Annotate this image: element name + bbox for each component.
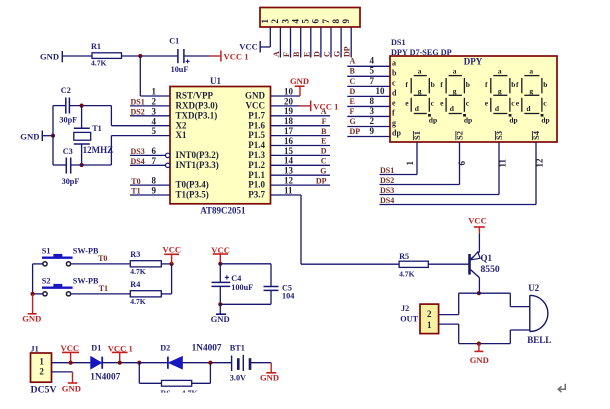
wire D1 to VCC1 (102, 362, 139, 364)
wire VCC1 to D2 (139, 362, 167, 364)
wire rail to C2 (53, 105, 66, 107)
ground symbol below switches (32, 294, 34, 314)
ground symbol at U1 pin 10 (295, 85, 305, 87)
svg-text:GND: GND (245, 91, 266, 101)
wire J2 pin 1 (439, 323, 459, 325)
svg-text:J2: J2 (401, 304, 409, 313)
svg-text:c: c (392, 78, 396, 87)
svg-text:1: 1 (152, 87, 157, 97)
svg-text:DS4: DS4 (380, 196, 394, 205)
svg-text:6: 6 (311, 19, 321, 24)
svg-text:T1: T1 (131, 187, 140, 196)
resistor R1 (92, 53, 122, 59)
wire U1 pin 3 with net label DS2 (130, 115, 170, 117)
wire R6 to right branch (192, 382, 211, 384)
svg-text:2: 2 (152, 97, 157, 107)
wire U1 pin 9 with net label T1 (130, 194, 170, 196)
svg-text:U2: U2 (528, 283, 539, 293)
svg-text:TXD(P3.1): TXD(P3.1) (176, 110, 218, 120)
crystal T1 12MHZ (74, 127, 90, 129)
svg-text:S2: S2 (42, 276, 51, 285)
svg-text:DS2: DS2 (131, 108, 145, 117)
node GND/rail junction (51, 134, 55, 138)
svg-text:GND: GND (470, 355, 489, 365)
svg-text:d: d (392, 88, 397, 97)
svg-text:2: 2 (270, 19, 280, 24)
svg-text:5: 5 (301, 19, 311, 24)
svg-text:GND: GND (22, 314, 41, 324)
seven-segment digit glyphs (414, 75, 427, 77)
bell U2 (530, 295, 548, 331)
svg-text:a: a (392, 58, 396, 67)
node VCC1 junction (118, 361, 122, 365)
wire U1 pin 6 INT0 with bubble and net label DS3 (166, 153, 170, 157)
svg-text:7: 7 (321, 19, 331, 24)
wire U1 pin 10 to ground (271, 95, 301, 97)
wire GND to R1 (62, 55, 92, 57)
wire branch down to R6 (138, 363, 140, 384)
svg-text:b: b (543, 80, 547, 89)
svg-text:a: a (529, 67, 533, 76)
wire R1 to C1 with junction (122, 55, 178, 57)
svg-text:GND: GND (290, 76, 309, 86)
svg-text:6: 6 (152, 146, 157, 156)
display bottom pin wires with rotated numbers (416, 142, 418, 175)
node VCC/C4 junction (218, 262, 222, 266)
svg-text:VCC: VCC (163, 245, 182, 255)
svg-text:B: B (350, 67, 356, 76)
svg-text:a: a (453, 67, 457, 76)
svg-text:1N4007: 1N4007 (90, 373, 120, 383)
svg-text:D1: D1 (91, 343, 101, 352)
diode D2 1N4007 (reversed) (167, 357, 169, 369)
svg-text:16: 16 (284, 136, 294, 146)
svg-text:19: 19 (284, 106, 294, 116)
power port VCC1 at U1 pin 20 (310, 101, 312, 112)
svg-text:D: D (312, 51, 321, 57)
node C4 bottom junction (218, 302, 222, 306)
resistor R3 (130, 261, 161, 267)
capacitor C2 30pF (65, 98, 67, 114)
capacitor C1 10uF (177, 49, 179, 63)
power port VCC1 (after C1) (220, 51, 222, 62)
node R6 branch left junction (137, 361, 141, 365)
svg-text:b: b (466, 80, 470, 89)
svg-text:1: 1 (405, 161, 415, 166)
svg-text:E: E (321, 137, 326, 146)
wire battery to GND (251, 362, 271, 364)
wire to U1 pin 4 X2 (110, 106, 112, 126)
svg-text:DP: DP (350, 127, 361, 136)
svg-text:P3.7: P3.7 (248, 190, 265, 200)
svg-text:AT89C2051: AT89C2051 (200, 206, 246, 216)
svg-text:12: 12 (284, 176, 294, 186)
svg-text:VCC 1: VCC 1 (224, 52, 249, 62)
wire crystal top stub (81, 106, 83, 129)
wire R5 to Q1 base (428, 263, 468, 265)
svg-text:P1.3: P1.3 (248, 150, 265, 160)
svg-text:1N4007: 1N4007 (192, 344, 222, 354)
svg-text:B: B (321, 127, 327, 136)
svg-text:F: F (322, 117, 327, 126)
svg-text:S1: S1 (42, 246, 51, 255)
node junction R1/C1/RST (138, 54, 142, 58)
svg-text:8: 8 (152, 176, 157, 186)
port GND (below C4) (219, 304, 221, 314)
svg-text:E: E (350, 97, 355, 106)
svg-text:e: e (392, 98, 396, 107)
svg-text:11: 11 (284, 185, 293, 195)
svg-text:BELL: BELL (527, 335, 551, 345)
svg-text:RST/VPP: RST/VPP (176, 91, 214, 101)
svg-text:10: 10 (376, 86, 386, 96)
svg-text:g: g (453, 86, 457, 95)
svg-text:b: b (392, 68, 397, 77)
wire C4 bottom rail (220, 303, 271, 305)
svg-text:P1.1: P1.1 (248, 170, 265, 180)
wire U1 pin 7 INT1 with bubble and net label DS4 (166, 163, 170, 167)
svg-text:f: f (392, 108, 395, 117)
svg-text:15: 15 (284, 146, 294, 156)
diode D1 1N4007 (91, 357, 102, 369)
svg-text:P1.7: P1.7 (248, 110, 265, 120)
svg-text:F: F (282, 52, 291, 57)
svg-text:T1: T1 (99, 284, 108, 293)
svg-text:12: 12 (534, 158, 544, 168)
svg-text:VCC: VCC (239, 42, 258, 52)
svg-text:F: F (350, 107, 355, 116)
svg-text:T0: T0 (98, 254, 107, 263)
svg-text:T0(P3.4): T0(P3.4) (176, 180, 209, 190)
svg-text:C: C (321, 157, 327, 166)
svg-text:VCC: VCC (246, 101, 266, 111)
svg-text:dp: dp (509, 115, 517, 124)
wire rail to C3 (53, 164, 66, 166)
svg-text:2: 2 (39, 366, 44, 376)
wires U1 pins 19-12 with net labels A F B E D C G DP (271, 115, 331, 117)
svg-text:A: A (321, 107, 327, 116)
node D2/R6 right junction (208, 361, 212, 365)
svg-text:17: 17 (284, 126, 294, 136)
svg-text:RXD(P3.0): RXD(P3.0) (176, 101, 218, 111)
wire junction down to U1 pin 1 (139, 56, 141, 96)
svg-text:4: 4 (152, 116, 157, 126)
svg-text:G: G (333, 51, 342, 57)
svg-text:T1(P3.5): T1(P3.5) (176, 190, 209, 200)
svg-text:T1: T1 (92, 124, 102, 133)
wire crystal bottom stub (81, 144, 83, 165)
svg-text:4.7K: 4.7K (399, 269, 414, 278)
resistor R6 (162, 380, 192, 386)
svg-text:20: 20 (284, 96, 294, 106)
svg-text:9: 9 (341, 19, 351, 24)
svg-text:D: D (350, 87, 356, 96)
wire left rail S1 to S2 (32, 264, 34, 294)
svg-text:P1.5: P1.5 (248, 130, 265, 140)
svg-text:3: 3 (280, 19, 290, 24)
wire C5 right rail (270, 264, 272, 287)
node left rail/GND junction (30, 292, 34, 296)
svg-text:DP: DP (343, 46, 352, 57)
svg-text:DP: DP (316, 176, 327, 185)
node crystal top junction (80, 104, 84, 108)
wire bell bottom stub (509, 330, 511, 344)
display DPY body (390, 56, 557, 142)
node bottom GND junction (477, 342, 481, 346)
svg-text:DC5V: DC5V (31, 384, 57, 395)
svg-text:dp: dp (392, 129, 401, 138)
svg-text:2: 2 (370, 116, 375, 126)
port VCC (top connector) (259, 41, 261, 53)
wire to U1 pin 5 X1 (110, 136, 112, 165)
svg-text:30pF: 30pF (62, 177, 80, 186)
svg-text:8550: 8550 (481, 264, 500, 275)
wire C3 to X1 node (71, 164, 112, 166)
svg-text:9: 9 (152, 186, 157, 196)
wire C2 to X2 node (69, 105, 111, 107)
svg-text:C3: C3 (63, 147, 73, 156)
svg-text:dp: dp (464, 115, 472, 124)
svg-text:B: B (292, 51, 301, 57)
svg-text:GND: GND (40, 52, 59, 62)
node crystal bottom junction (80, 163, 84, 167)
svg-text:13: 13 (284, 166, 294, 176)
svg-text:Q1: Q1 (481, 253, 493, 263)
svg-text:P1.2: P1.2 (248, 160, 265, 170)
svg-text:2: 2 (427, 309, 432, 319)
wire J1 pin 1 (52, 362, 91, 364)
svg-text:P1.0: P1.0 (248, 180, 265, 190)
node Q1 collector junction (477, 291, 481, 295)
svg-text:30pF: 30pF (59, 116, 77, 125)
svg-text:DS3: DS3 (131, 147, 145, 156)
svg-text:A: A (350, 57, 356, 66)
wire pin1 to VCC port (269, 27, 271, 47)
capacitor C4 100uF (212, 281, 231, 283)
svg-text:DS4: DS4 (131, 157, 145, 166)
svg-text:VCC: VCC (468, 215, 487, 225)
svg-text:9: 9 (370, 126, 375, 136)
value label R6 4.7K (clipped) (161, 389, 199, 398)
svg-text:X2: X2 (176, 120, 187, 130)
svg-text:4.7K: 4.7K (130, 267, 145, 276)
svg-text:1: 1 (427, 320, 432, 330)
wire S2 to R4 with net label T1 (71, 293, 131, 295)
ground symbol below bell row (478, 344, 480, 352)
svg-text:G: G (350, 117, 356, 126)
wire GND port to rail (42, 135, 53, 137)
svg-text:1: 1 (39, 357, 44, 367)
svg-text:g: g (418, 86, 422, 95)
svg-text:DS3: DS3 (380, 186, 394, 195)
svg-text:R1: R1 (91, 42, 101, 51)
svg-text:dp: dp (541, 115, 549, 124)
wire to J2 pin 2 (458, 293, 460, 314)
svg-text:GND: GND (260, 372, 279, 382)
svg-text:10: 10 (284, 86, 294, 96)
wire left rail (52, 106, 54, 165)
svg-text:C: C (350, 77, 356, 86)
svg-text:R4: R4 (130, 280, 140, 289)
svg-text:3: 3 (152, 106, 157, 116)
svg-text:C1: C1 (169, 37, 179, 46)
svg-text:X1: X1 (176, 130, 187, 140)
wire C4 top rail (220, 263, 271, 265)
svg-text:3: 3 (370, 106, 375, 116)
svg-text:D2: D2 (160, 344, 170, 353)
svg-text:SW-PB: SW-PB (73, 246, 99, 255)
svg-text:14: 14 (284, 156, 294, 166)
svg-text:C: C (323, 51, 332, 57)
svg-text:g: g (392, 118, 396, 127)
svg-text:DS1: DS1 (380, 166, 394, 175)
svg-text:R5: R5 (399, 252, 409, 261)
svg-text:SW-PB: SW-PB (73, 276, 99, 285)
connector JP1 (9-pin header) (260, 8, 360, 28)
svg-text:GND: GND (211, 314, 230, 324)
svg-text:VCC: VCC (61, 343, 80, 353)
svg-text:DS1: DS1 (391, 38, 406, 47)
svg-text:GND: GND (20, 131, 39, 141)
wire VCC rail down to R4 (171, 264, 173, 294)
ground symbol after battery (270, 363, 272, 373)
connector J2 OUT (420, 304, 439, 334)
svg-text:8: 8 (370, 96, 375, 106)
svg-text:g: g (529, 86, 533, 95)
wire U1 pin 2 with net label DS1 (130, 105, 170, 107)
svg-text:a: a (418, 67, 422, 76)
svg-text:P1.4: P1.4 (248, 140, 265, 150)
svg-text:DS1: DS1 (131, 98, 145, 107)
wire R3 to VCC rail (161, 263, 171, 265)
svg-text:5: 5 (152, 126, 157, 136)
svg-text:8: 8 (331, 19, 341, 24)
svg-text:U1: U1 (210, 76, 221, 86)
svg-text:104: 104 (282, 292, 294, 301)
capacitor C3 30pF (65, 158, 67, 174)
resistor R4 (130, 291, 161, 297)
svg-text:4: 4 (291, 19, 301, 24)
svg-text:OUT: OUT (400, 315, 418, 324)
wire U1 pin 8 with net label T0 (130, 184, 170, 186)
svg-text:12MHZ: 12MHZ (83, 145, 114, 155)
svg-text:DPY: DPY (464, 57, 483, 67)
wire bottom row to bell (459, 343, 511, 345)
svg-text:7: 7 (370, 76, 375, 86)
svg-text:P1.6: P1.6 (248, 120, 265, 130)
svg-text:11: 11 (497, 158, 507, 167)
resistor R5 (399, 261, 428, 267)
svg-text:10uF: 10uF (171, 65, 189, 74)
svg-text:b: b (511, 80, 515, 89)
svg-text:b: b (431, 80, 435, 89)
svg-text:5: 5 (370, 66, 375, 76)
wire rail to S1 (33, 263, 43, 265)
wire collector row (459, 292, 511, 294)
svg-text:BT1: BT1 (230, 344, 245, 353)
svg-text:6: 6 (457, 161, 467, 166)
svg-text:R3: R3 (130, 250, 140, 259)
svg-text:C2: C2 (61, 86, 71, 95)
svg-text:A: A (272, 51, 281, 57)
wire U1 pin 20 to VCC1 (271, 105, 300, 107)
node R3/VCC rail junction (170, 262, 174, 266)
svg-text:INT1(P3.3): INT1(P3.3) (176, 160, 219, 170)
ground symbol at J1 pin 2 (52, 371, 73, 373)
wire R4 to VCC rail (161, 293, 171, 295)
wire bell top stub (509, 293, 511, 306)
svg-text:GND: GND (62, 384, 81, 394)
transistor Q1 8550 (468, 254, 471, 275)
svg-text:3.0V: 3.0V (230, 373, 246, 382)
svg-text:D: D (321, 147, 327, 156)
wire U1 pin 11 P3.7 down to R5 (271, 194, 302, 196)
wire C1 to VCC1 port (184, 55, 209, 57)
svg-text:4.7K: 4.7K (130, 297, 145, 306)
op-amp U1 microcontroller AT89C2051 body (170, 87, 271, 204)
return mark (gray) (558, 384, 565, 392)
wires connector pins 2-9 with net labels A F B E D C G DP (279, 27, 281, 57)
svg-text:1: 1 (260, 19, 270, 24)
svg-text:7: 7 (152, 156, 157, 166)
svg-text:18: 18 (284, 116, 294, 126)
svg-text:dp: dp (429, 115, 437, 124)
svg-text:4: 4 (370, 56, 375, 66)
display left pin wires with net labels and numbers (347, 65, 390, 67)
node VCC junction (69, 361, 73, 365)
svg-text:INT0(P3.2): INT0(P3.2) (176, 150, 219, 160)
wire rail to S2 (33, 293, 43, 295)
svg-text:a: a (498, 67, 502, 76)
svg-text:4.7K: 4.7K (91, 58, 106, 67)
wire C4 bottom (219, 286, 221, 304)
wire S1 to R3 with net label T0 (71, 263, 131, 265)
svg-text:DS2: DS2 (380, 176, 394, 185)
svg-text:J1: J1 (31, 344, 39, 353)
capacitor C5 104 (264, 286, 279, 288)
svg-text:G: G (320, 166, 326, 175)
wire D2 to battery (182, 362, 231, 364)
svg-text:100uF: 100uF (231, 283, 253, 292)
svg-text:E: E (302, 52, 311, 57)
svg-text:g: g (498, 86, 502, 95)
svg-text:T0: T0 (131, 177, 140, 186)
svg-text:C4: C4 (231, 274, 241, 283)
